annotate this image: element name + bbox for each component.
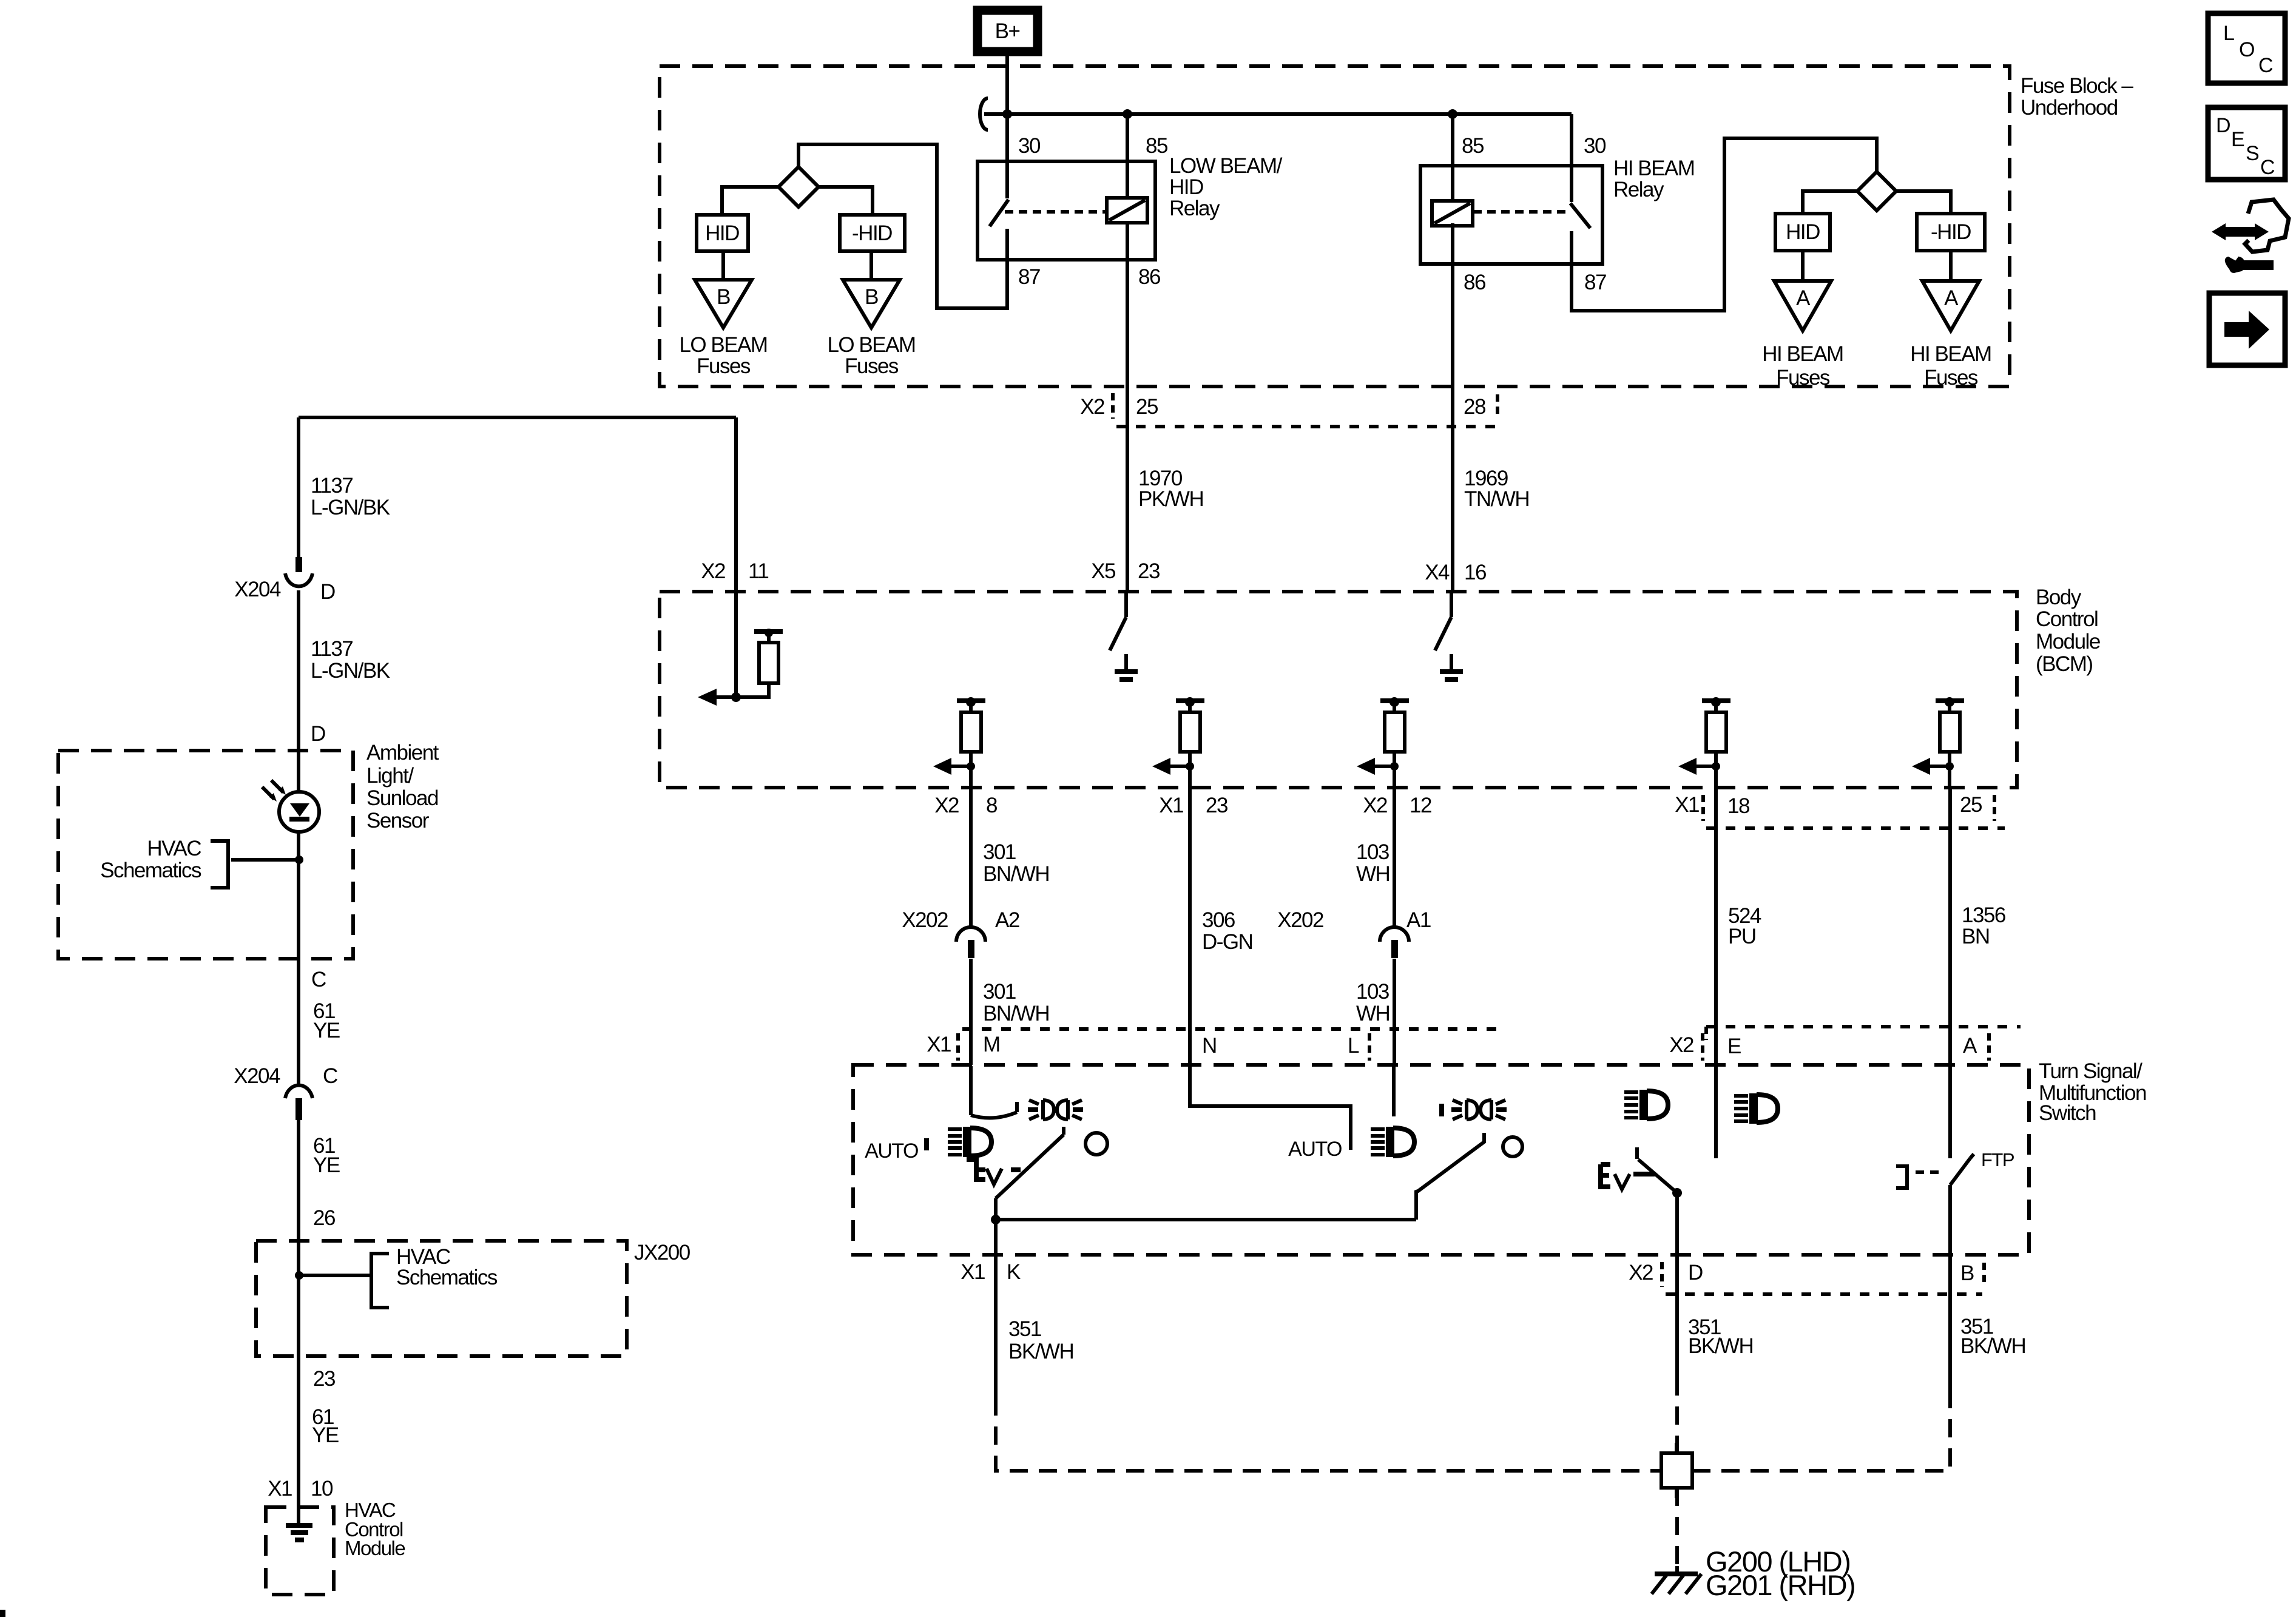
- svg-text:O: O: [2239, 38, 2254, 61]
- svg-text:BN/WH: BN/WH: [983, 1002, 1049, 1025]
- svg-text:X2: X2: [701, 559, 725, 583]
- svg-text:JX200: JX200: [634, 1241, 690, 1264]
- svg-text:(BCM): (BCM): [2036, 652, 2093, 676]
- svg-text:X204: X204: [234, 578, 281, 601]
- svg-text:B: B: [1960, 1261, 1974, 1285]
- svg-text:AUTO: AUTO: [1288, 1138, 1342, 1161]
- svg-text:D-GN: D-GN: [1202, 930, 1252, 954]
- svg-text:X1: X1: [268, 1477, 292, 1501]
- svg-text:26: 26: [313, 1206, 335, 1230]
- svg-text:B: B: [717, 285, 730, 309]
- svg-text:X202: X202: [1277, 908, 1323, 932]
- svg-text:BK/WH: BK/WH: [1688, 1334, 1753, 1358]
- svg-text:X202: X202: [902, 908, 948, 932]
- svg-text:23: 23: [1206, 794, 1227, 817]
- svg-text:N: N: [1202, 1034, 1217, 1058]
- svg-text:X2: X2: [1669, 1033, 1693, 1057]
- svg-text:Schematics: Schematics: [396, 1266, 498, 1289]
- svg-text:X1: X1: [1675, 793, 1699, 817]
- svg-text:D: D: [320, 580, 335, 604]
- svg-text:Sensor: Sensor: [366, 809, 430, 832]
- svg-text:Module: Module: [2036, 630, 2100, 653]
- svg-text:G201 (RHD): G201 (RHD): [1706, 1569, 1855, 1601]
- svg-text:-HID: -HID: [852, 221, 892, 245]
- svg-text:WH: WH: [1356, 1002, 1389, 1025]
- svg-text:K: K: [1007, 1260, 1021, 1284]
- svg-text:Module: Module: [345, 1537, 405, 1559]
- svg-text:Underhood: Underhood: [2021, 96, 2118, 120]
- svg-text:LOW BEAM/: LOW BEAM/: [1169, 154, 1283, 178]
- svg-text:X204: X204: [234, 1064, 280, 1088]
- svg-text:TN/WH: TN/WH: [1464, 487, 1529, 511]
- svg-text:LO BEAM: LO BEAM: [827, 333, 915, 357]
- svg-text:86: 86: [1464, 271, 1485, 294]
- svg-text:FTP: FTP: [1981, 1149, 2014, 1170]
- svg-text:C: C: [2260, 156, 2275, 179]
- svg-text:C: C: [323, 1064, 337, 1088]
- svg-text:23: 23: [313, 1367, 335, 1391]
- svg-text:85: 85: [1146, 134, 1167, 158]
- svg-text:16: 16: [1464, 561, 1486, 584]
- svg-text:Turn Signal/: Turn Signal/: [2039, 1059, 2142, 1083]
- svg-text:12: 12: [1410, 794, 1431, 817]
- svg-text:103: 103: [1356, 980, 1389, 1004]
- svg-text:87: 87: [1584, 271, 1606, 294]
- svg-text:103: 103: [1356, 840, 1389, 864]
- svg-text:10: 10: [311, 1477, 333, 1501]
- svg-text:S: S: [2246, 142, 2259, 165]
- svg-text:BN: BN: [1962, 925, 1990, 948]
- svg-text:HI BEAM: HI BEAM: [1910, 342, 1991, 366]
- svg-text:25: 25: [1960, 793, 1982, 817]
- svg-text:B: B: [865, 285, 878, 309]
- svg-text:X2: X2: [1363, 794, 1387, 817]
- svg-text:18: 18: [1727, 794, 1749, 818]
- svg-text:A1: A1: [1406, 908, 1431, 932]
- svg-text:Schematics: Schematics: [100, 859, 201, 882]
- svg-text:X2: X2: [1629, 1261, 1653, 1284]
- svg-text:-HID: -HID: [1931, 220, 1971, 244]
- svg-text:B+: B+: [995, 19, 1020, 43]
- svg-text:PK/WH: PK/WH: [1138, 487, 1203, 511]
- svg-text:L-GN/BK: L-GN/BK: [311, 496, 390, 519]
- svg-text:301: 301: [983, 980, 1016, 1004]
- svg-text:306: 306: [1202, 908, 1235, 932]
- svg-text:X2: X2: [934, 794, 959, 817]
- svg-text:23: 23: [1138, 559, 1160, 583]
- svg-text:L-GN/BK: L-GN/BK: [311, 659, 390, 683]
- svg-text:HI BEAM: HI BEAM: [1762, 342, 1843, 366]
- svg-text:1137: 1137: [311, 474, 353, 498]
- svg-text:L: L: [1348, 1034, 1359, 1058]
- svg-text:A: A: [1963, 1034, 1977, 1058]
- svg-text:BN/WH: BN/WH: [983, 862, 1049, 886]
- svg-text:30: 30: [1584, 134, 1606, 158]
- svg-text:1137: 1137: [311, 637, 353, 661]
- svg-text:D: D: [311, 722, 325, 746]
- svg-text:YE: YE: [313, 1019, 340, 1042]
- svg-text:A2: A2: [995, 908, 1019, 932]
- svg-text:Light/: Light/: [366, 764, 414, 788]
- svg-text:C: C: [2258, 54, 2273, 77]
- svg-text:Relay: Relay: [1169, 197, 1220, 220]
- svg-text:Sunload: Sunload: [366, 786, 438, 810]
- svg-text:Fuses: Fuses: [697, 354, 751, 378]
- svg-text:351: 351: [1008, 1317, 1041, 1341]
- svg-text:HVAC: HVAC: [147, 837, 201, 860]
- svg-text:Fuses: Fuses: [1776, 366, 1830, 390]
- svg-text:85: 85: [1462, 134, 1484, 158]
- svg-text:D: D: [1688, 1261, 1703, 1284]
- svg-text:AUTO: AUTO: [865, 1139, 918, 1163]
- svg-text:X1: X1: [961, 1260, 985, 1284]
- svg-text:L: L: [2223, 22, 2234, 45]
- svg-text:A: A: [1944, 286, 1959, 310]
- svg-text:YE: YE: [313, 1153, 340, 1177]
- svg-text:WH: WH: [1356, 862, 1389, 886]
- svg-text:X1: X1: [1159, 794, 1183, 817]
- svg-text:Fuses: Fuses: [1924, 366, 1978, 390]
- svg-text:30: 30: [1018, 134, 1041, 158]
- svg-text:Fuse Block –: Fuse Block –: [2021, 74, 2133, 98]
- svg-text:YE: YE: [312, 1423, 339, 1447]
- svg-text:25: 25: [1136, 395, 1158, 419]
- svg-text:Body: Body: [2036, 586, 2082, 609]
- svg-text:11: 11: [748, 559, 768, 583]
- svg-text:X2: X2: [1080, 395, 1104, 419]
- svg-text:Ambient: Ambient: [366, 741, 439, 765]
- svg-text:LO BEAM: LO BEAM: [679, 333, 767, 357]
- svg-text:Switch: Switch: [2039, 1101, 2096, 1125]
- svg-text:E: E: [1727, 1035, 1741, 1058]
- svg-text:HID: HID: [705, 221, 739, 245]
- svg-text:C: C: [311, 968, 326, 991]
- svg-text:E: E: [2231, 128, 2244, 151]
- svg-text:Fuses: Fuses: [845, 354, 899, 378]
- svg-text:X5: X5: [1091, 559, 1115, 583]
- svg-text:1356: 1356: [1962, 903, 2005, 927]
- svg-text:HI BEAM: HI BEAM: [1613, 157, 1694, 180]
- svg-text:HID: HID: [1786, 220, 1820, 244]
- svg-text:Relay: Relay: [1613, 178, 1664, 201]
- svg-text:87: 87: [1018, 265, 1040, 289]
- svg-text:Control: Control: [2036, 607, 2098, 631]
- svg-text:PU: PU: [1728, 925, 1756, 948]
- svg-text:86: 86: [1138, 265, 1160, 289]
- svg-text:301: 301: [983, 840, 1016, 864]
- svg-text:D: D: [2216, 114, 2230, 137]
- svg-text:BK/WH: BK/WH: [1008, 1340, 1073, 1363]
- svg-text:28: 28: [1464, 395, 1485, 419]
- svg-text:X1: X1: [927, 1033, 951, 1056]
- svg-text:BK/WH: BK/WH: [1960, 1334, 2025, 1358]
- svg-text:M: M: [983, 1033, 1000, 1056]
- svg-text:A: A: [1796, 286, 1811, 310]
- svg-text:HID: HID: [1169, 175, 1203, 199]
- svg-text:8: 8: [986, 794, 997, 817]
- svg-text:X4: X4: [1425, 561, 1450, 584]
